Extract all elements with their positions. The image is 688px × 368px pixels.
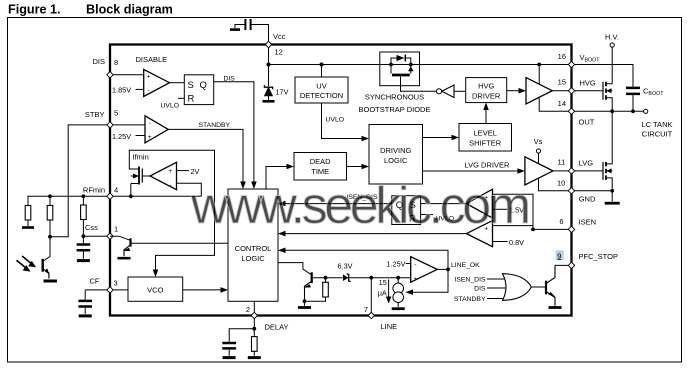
wire 0.8V comp plus input (493, 225, 534, 227)
wire UVLO to driving logic (322, 103, 362, 139)
comparator Ifmin (150, 162, 177, 189)
wire pin 2 (253, 301, 255, 328)
ground (current source) (392, 307, 405, 310)
junction HVG buffer supply (537, 63, 541, 67)
wire pin1 internal to Q1 (110, 236, 130, 240)
wire R2 to opto collector (44, 237, 50, 261)
wire pin5 to comparator (110, 124, 145, 126)
comparator ISEN 1.5V (466, 189, 492, 218)
svg-text:Css: Css (85, 223, 98, 232)
pin 14 (568, 108, 574, 114)
svg-text:15: 15 (379, 278, 387, 287)
terminal OUT (644, 109, 648, 113)
svg-text:www.seekic.com: www.seekic.com (190, 177, 528, 235)
flip-flop FF1 S/Q/R (184, 75, 213, 105)
svg-text:2: 2 (246, 305, 250, 314)
svg-text:OUT: OUT (579, 118, 595, 127)
arrowhead LINE_OK into control logic (278, 248, 286, 254)
ground (Vcc cap) (230, 28, 240, 31)
svg-text:Vcc: Vcc (273, 32, 286, 41)
wire inverter input from HVG driver (454, 90, 466, 92)
wire UVLO stub to FF2 R (421, 214, 433, 216)
arrowhead Ifmin into VCO (153, 270, 159, 278)
flip-flop FF2 ISEN latch (392, 196, 421, 225)
svg-text:UVLO: UVLO (161, 103, 180, 110)
wire OR input 3 (487, 298, 505, 300)
svg-text:1.25V: 1.25V (386, 260, 405, 269)
wire Q1 base to control logic (131, 242, 229, 244)
inverter bootstrap (436, 85, 454, 98)
junction CBOOT/OUT (631, 109, 635, 113)
arrowhead into HVG driver (483, 103, 489, 111)
svg-text:PFC_STOP: PFC_STOP (579, 252, 618, 261)
svg-text:Vs: Vs (534, 137, 543, 146)
pin 3 (107, 287, 113, 293)
wire Q2 base rail (312, 277, 343, 279)
svg-text:H.V.: H.V. (605, 33, 619, 42)
svg-text:CF: CF (90, 277, 100, 286)
block bootstrap box (380, 52, 420, 86)
block HVG DRIVER (466, 78, 507, 103)
svg-text:VCO: VCO (147, 285, 163, 294)
arrowhead DIS into control logic (251, 182, 257, 190)
svg-text:LINE: LINE (381, 322, 398, 331)
pin 12 (265, 41, 271, 48)
wire pin11 to LVG MOSFET gate (575, 170, 603, 172)
wire UV detection feed (321, 65, 323, 78)
svg-text:4: 4 (114, 186, 118, 195)
wire HVG buffer supply (538, 65, 540, 85)
svg-text:Block diagram: Block diagram (86, 3, 173, 17)
wire Vs to LVG buffer (538, 153, 540, 166)
wire LINE node to comparator plus (371, 277, 410, 279)
wire level shifter to HVG driver (485, 110, 487, 124)
wire control logic to Q2 collector (278, 263, 311, 275)
transistor opto phototransistor (43, 259, 50, 279)
wire pin8 to comparator (110, 74, 144, 76)
wire VCO to control logic (183, 289, 221, 291)
wire LINE_OK to current source (413, 269, 448, 292)
IC body box (110, 45, 572, 316)
wire comparator to FF1 (170, 82, 185, 84)
wire 1.25V ref line (406, 263, 411, 265)
svg-text:-: - (149, 120, 151, 127)
arrowhead into driving logic (dead time) (362, 164, 370, 170)
transistor LVG MOSFET (603, 111, 612, 191)
block Ifmin open box (129, 150, 214, 270)
svg-text:LEVEL: LEVEL (474, 129, 497, 138)
junction R3 top (82, 194, 86, 198)
wire FF2 Q to control logic (286, 203, 392, 205)
svg-text:LVG: LVG (579, 158, 594, 167)
svg-text:Q: Q (200, 80, 207, 91)
block LEVEL SHIFTER (459, 124, 512, 152)
ground (Css) (77, 259, 90, 262)
wire driving logic LVG out (423, 170, 518, 172)
svg-text:+: + (169, 168, 173, 175)
svg-text:STANDBY: STANDBY (454, 296, 486, 303)
wire OR input 2 (487, 287, 506, 289)
svg-text:DEAD: DEAD (310, 157, 331, 166)
capacitor CBOOT (626, 88, 640, 111)
svg-text:-: - (485, 240, 487, 247)
transistor M1 Ifmin MOSFET (129, 167, 142, 197)
wire LINE_OK output (437, 268, 448, 270)
wire pin1 external (83, 235, 110, 237)
comparator DISABLE (144, 69, 170, 96)
svg-text:15: 15 (558, 78, 566, 87)
junction bootstrap left (389, 63, 393, 67)
resistor R1 (25, 206, 31, 227)
svg-text:SHIFTER: SHIFTER (469, 139, 502, 148)
wire 1.5V ref (493, 208, 508, 210)
svg-text:11: 11 (558, 157, 566, 166)
wire Q3 collector to pin 9 (555, 264, 572, 266)
svg-text:-: - (414, 262, 416, 269)
ground (R1) (22, 226, 34, 229)
transistor Q2 line sense (303, 272, 311, 301)
optocoupler light arrows (17, 256, 37, 272)
svg-text:+: + (148, 134, 152, 141)
wire OR input 1 (487, 278, 505, 280)
wire STANDBY to control logic (168, 129, 243, 181)
ground (Q1) (118, 257, 131, 260)
svg-text:1: 1 (114, 225, 118, 234)
svg-text:UV: UV (316, 82, 326, 91)
pin 1 (107, 233, 113, 239)
wire 2V ref (177, 170, 190, 172)
wire delay cap branch (229, 329, 254, 342)
svg-text:STANDBY: STANDBY (199, 122, 231, 129)
wire 1.5V comp plus input (493, 194, 534, 229)
svg-text:10: 10 (557, 179, 565, 188)
svg-text:1.25V: 1.25V (112, 132, 131, 141)
arrowhead into level shifter (452, 135, 460, 141)
capacitor Css (77, 236, 91, 259)
pin 2 (251, 312, 257, 318)
arrowhead ISEN_DIS into control logic (278, 201, 286, 207)
gate OR (503, 274, 532, 301)
pin 9 number highlighted (556, 250, 564, 259)
svg-text:6.3V: 6.3V (338, 262, 353, 271)
pin 9 (568, 262, 574, 268)
svg-text:DRIVING: DRIVING (380, 146, 411, 155)
ground (Q3) (549, 306, 562, 309)
svg-text:ISEN_DIS: ISEN_DIS (455, 277, 486, 284)
resistor R3 (81, 196, 87, 236)
resistor R4 line (305, 278, 329, 302)
wire pin15 to HV MOSFET gate (575, 90, 603, 92)
svg-text:6: 6 (559, 217, 563, 226)
block DRIVING LOGIC (369, 125, 423, 185)
ground (opto) (44, 280, 58, 283)
transistor HV MOSFET (603, 82, 612, 112)
arrowhead into driving logic (362, 136, 370, 142)
svg-text:9: 9 (557, 251, 561, 260)
svg-text:16: 16 (558, 52, 566, 61)
pin 5 (107, 122, 113, 128)
junction R2/STBY (48, 235, 52, 239)
arrowhead VCO into control logic (221, 287, 229, 293)
pin 16 (568, 61, 574, 67)
wire RFmin external rail (28, 196, 110, 205)
resistor delay (252, 329, 258, 356)
svg-text:-: - (170, 182, 172, 189)
wire VBOOT to CBOOT (575, 65, 633, 87)
wire LINE pin (370, 278, 372, 313)
block DEAD TIME (294, 153, 347, 181)
block VCO (128, 277, 183, 301)
wire 0.8V comp output to control logic (286, 233, 467, 235)
wire pin5 external to STBY column (50, 125, 110, 237)
pin 10 (568, 188, 574, 194)
capacitor CF (78, 290, 92, 314)
zener diode 17V (264, 85, 272, 100)
svg-text:UVLO: UVLO (326, 117, 345, 124)
junction current source top (396, 276, 400, 280)
svg-text:DISABLE: DISABLE (136, 55, 168, 64)
wire HVG driver to buffer (507, 90, 519, 92)
wire DIS to control logic (214, 82, 254, 182)
diode bootstrap (391, 55, 411, 65)
svg-text:BOOTSTRAP DIODE: BOOTSTRAP DIODE (359, 105, 431, 114)
arrowhead into LVG buffer (517, 168, 525, 174)
svg-text:ISEN: ISEN (579, 218, 597, 227)
wire dead time to driving logic (347, 166, 362, 168)
svg-text:14: 14 (558, 99, 566, 108)
zener diode 6.3V (343, 274, 371, 282)
junction base/resistor (324, 276, 328, 280)
wire LVG buffer return to pin 10 (539, 177, 572, 191)
svg-text:CIRCUIT: CIRCUIT (642, 130, 673, 139)
comparator STBY (145, 116, 168, 143)
svg-text:SYNCHRONOUS: SYNCHRONOUS (365, 93, 424, 102)
ground (CF) (79, 314, 92, 317)
svg-text:R: R (188, 94, 195, 105)
resistor R2 (47, 196, 53, 236)
arrowhead into current source (406, 289, 414, 295)
svg-text:17V: 17V (276, 88, 289, 97)
svg-text:HVG: HVG (478, 82, 494, 91)
svg-text:S: S (188, 80, 194, 91)
wire zener (268, 65, 270, 87)
svg-text:DIS: DIS (92, 57, 105, 66)
wire bootstrap gate to inverter (401, 77, 437, 92)
svg-text:DIS: DIS (474, 285, 486, 292)
svg-text:LINE_OK: LINE_OK (451, 262, 480, 269)
buffer LVG (525, 157, 553, 185)
wire comparator output to gate (142, 175, 150, 177)
junction R2 top (48, 194, 52, 198)
junction UV tap (320, 63, 324, 67)
wire OR output to Q3 base (531, 286, 545, 288)
svg-text:Ifmin: Ifmin (133, 153, 149, 162)
pin 15 (568, 88, 574, 94)
svg-text:GND: GND (579, 195, 596, 204)
comparator ISEN 0.8V (466, 221, 492, 247)
junction Vcc rail/zener (267, 63, 271, 67)
wire OUT (575, 110, 644, 112)
wire 1.5V comp output to FF2 (421, 203, 467, 205)
comparator LINE (411, 257, 438, 283)
svg-text:12: 12 (275, 48, 283, 57)
wire UVLO stub to FF1 R (178, 97, 184, 99)
capacitor Vcc decoupling (235, 19, 251, 30)
pin 4 (107, 193, 113, 199)
wire 1.25V ref (136, 135, 146, 137)
junction Q2 emitter/resistor (303, 299, 307, 303)
block UV DETECTION (295, 77, 348, 103)
wire HVG buffer return to pin 14 (539, 97, 571, 111)
svg-text:8: 8 (114, 58, 118, 67)
svg-text:+: + (147, 74, 151, 81)
junction bootstrap right (409, 63, 413, 67)
wire driving logic to level shifter (423, 137, 452, 139)
junction MOSFET source on RFmin (129, 194, 133, 198)
pin 6 (568, 226, 574, 232)
svg-text:LOGIC: LOGIC (384, 156, 408, 165)
wire control logic to dead time (266, 167, 287, 190)
svg-text:DETECTION: DETECTION (300, 91, 343, 100)
arrowhead into HVG buffer (519, 88, 527, 94)
junction LINE node (369, 276, 373, 280)
wire pin10 to MOSFET source (575, 190, 613, 192)
junction Css cap (82, 234, 86, 238)
svg-text:5: 5 (114, 109, 118, 118)
svg-text:HVG: HVG (580, 79, 596, 88)
svg-text:+: + (414, 276, 418, 283)
wire Vcc rail (269, 48, 569, 65)
svg-text:-: - (147, 88, 149, 95)
arrow 15uA direction (388, 280, 390, 299)
junction HV MOSFET source/OUT (610, 109, 614, 113)
svg-text:7: 7 (364, 305, 368, 314)
wire Ifmin feedback to RFmin (177, 183, 202, 196)
pin 7 (368, 312, 374, 318)
junction GND node (610, 189, 614, 193)
ground (zener) (263, 100, 275, 103)
terminal Vs (536, 149, 540, 153)
wire HV to MOSFET drain (611, 47, 613, 84)
wire pin4 internal (110, 195, 201, 197)
transistor bootstrap MOSFET (391, 65, 414, 76)
svg-text:LOGIC: LOGIC (241, 254, 265, 263)
svg-text:DRIVER: DRIVER (472, 92, 501, 101)
junction LINE_OK (446, 268, 450, 272)
ground (Q2) (298, 306, 311, 309)
wire buffer to pin 15 (552, 90, 571, 92)
block CONTROL LOGIC (228, 189, 278, 301)
ground (delay resistor) (248, 356, 261, 359)
wire ISEN pin (533, 228, 572, 230)
wire pin3 (85, 289, 128, 291)
wire LINE_OK to control logic (286, 250, 449, 269)
pin 8 (107, 72, 113, 78)
junction delay node (252, 327, 256, 331)
wire emitter to ground (304, 301, 306, 306)
svg-text:2V: 2V (191, 167, 200, 176)
junction ISEN node (531, 228, 535, 232)
svg-text:RFmin: RFmin (83, 186, 105, 195)
svg-text:TIME: TIME (311, 167, 329, 176)
svg-text:µA: µA (378, 288, 387, 297)
ground (delay cap) (223, 356, 236, 359)
svg-text:1.85V: 1.85V (112, 85, 131, 94)
svg-text:DELAY: DELAY (265, 322, 289, 331)
transistor Q3 PFC_STOP (546, 265, 556, 305)
buffer HVG (526, 78, 552, 104)
capacitor delay (222, 343, 236, 356)
current source 15uA (393, 278, 404, 307)
ground (GND pin) (605, 202, 620, 205)
wire 1.85V ref (136, 88, 144, 90)
svg-text:3: 3 (114, 279, 118, 288)
wire Vcc cap to pin 12 (251, 25, 269, 43)
pin 11 (568, 168, 574, 174)
wire 0.8V ref (493, 241, 508, 243)
arrowhead OCP into control logic (278, 231, 286, 237)
transistor Q1 soft-start discharge (123, 238, 131, 256)
svg-text:CONTROL: CONTROL (235, 244, 272, 253)
svg-text:STBY: STBY (85, 110, 105, 119)
wire buffer to pin 11 (553, 170, 572, 172)
wire GND node down (611, 191, 613, 202)
svg-text:LC TANK: LC TANK (642, 120, 673, 129)
terminal H.V. (610, 43, 614, 47)
arrowhead STANDBY into control logic (240, 182, 246, 190)
svg-text:0.8V: 0.8V (509, 238, 524, 247)
svg-text:Figure 1.: Figure 1. (8, 3, 60, 17)
arrowhead into dead time (287, 164, 295, 170)
svg-text:LVG DRIVER: LVG DRIVER (465, 161, 510, 170)
